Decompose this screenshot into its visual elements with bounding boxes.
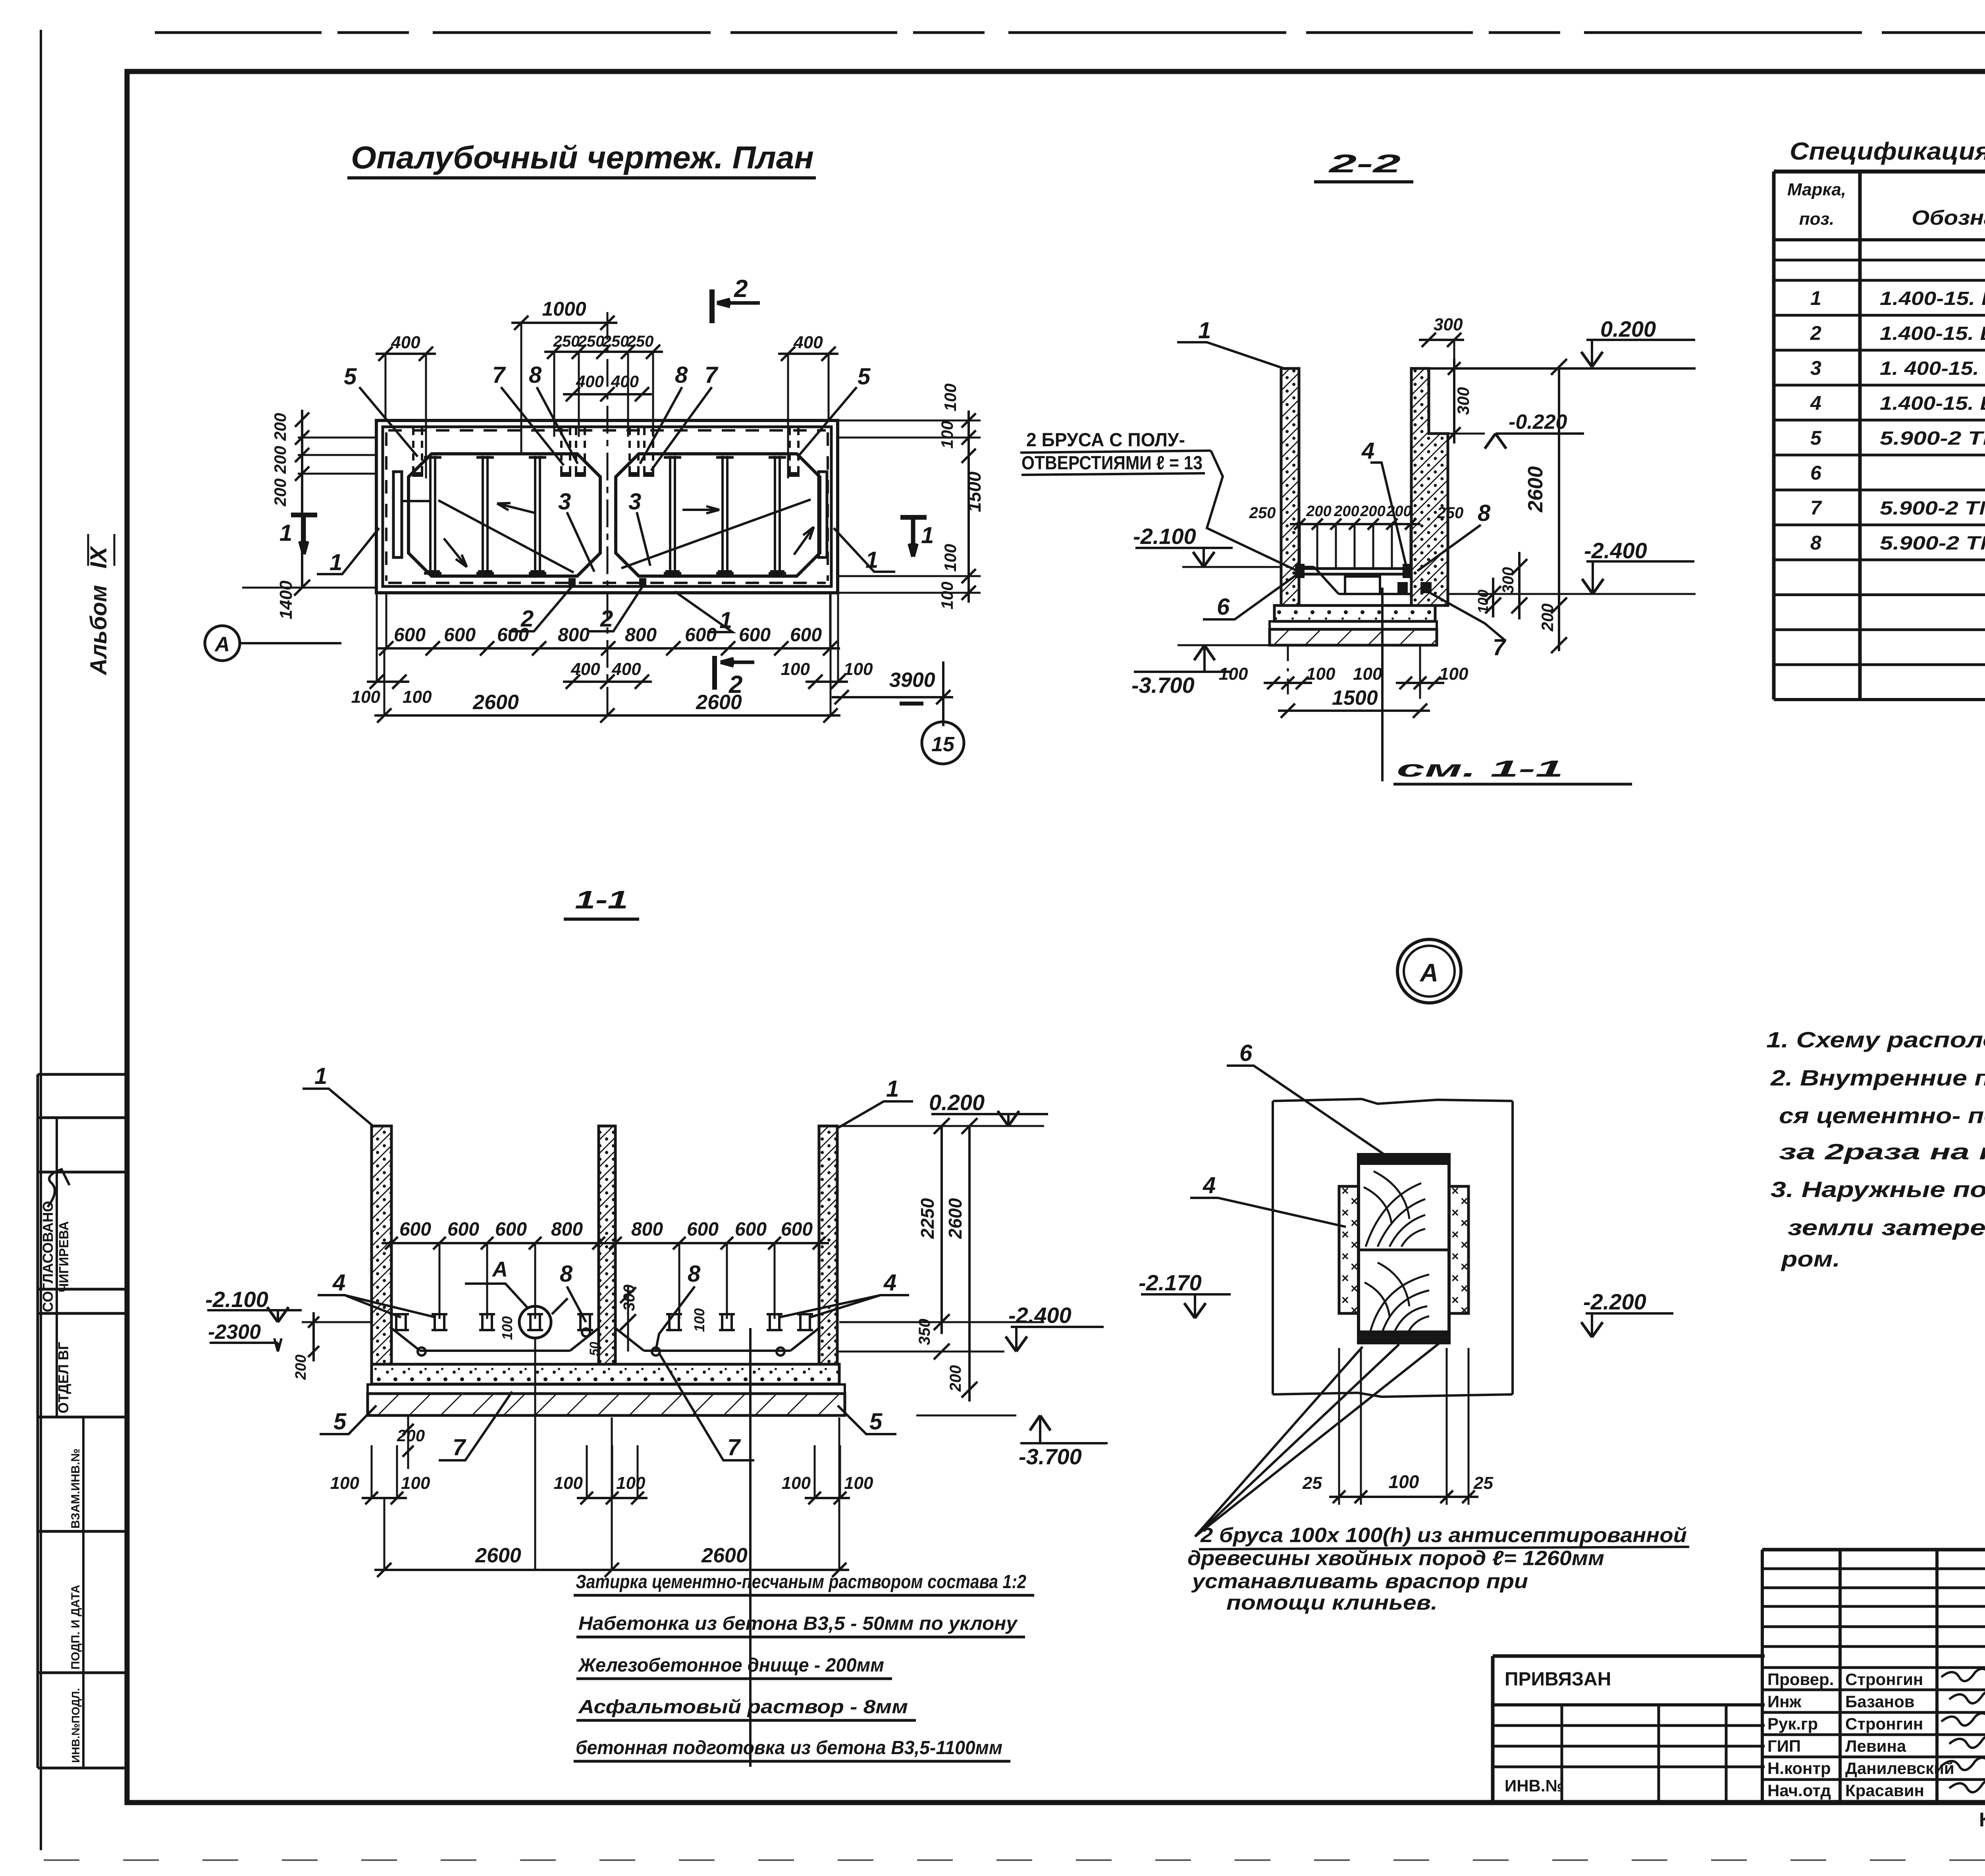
svg-text:2600: 2600 [696,691,742,714]
svg-text:×: × [1461,1281,1468,1296]
svg-text:8: 8 [1478,500,1491,526]
svg-text:7: 7 [705,362,719,388]
svg-text:5: 5 [1810,427,1822,449]
svg-text:100: 100 [351,687,381,707]
svg-text:Красавин: Красавин [1845,1781,1924,1800]
svg-text:200: 200 [1334,503,1359,520]
svg-text:2600: 2600 [472,691,519,714]
svg-text:350: 350 [916,1319,933,1345]
svg-text:ОТВЕРСТИЯМИ ℓ = 13: ОТВЕРСТИЯМИ ℓ = 13 [1021,453,1203,474]
svg-text:ПРИВЯЗАН: ПРИВЯЗАН [1505,1669,1611,1690]
svg-text:×: × [1351,1216,1358,1230]
svg-text:за 2раза на толщину 25м: за 2раза на толщину 25мм. [1779,1139,1985,1164]
svg-text:8: 8 [688,1261,701,1287]
svg-text:3: 3 [628,489,641,515]
svg-text:ром.: ром. [1781,1246,1840,1271]
svg-text:А: А [214,633,230,656]
svg-text:100: 100 [1353,664,1382,684]
svg-text:600: 600 [394,625,426,646]
svg-text:5.900-2 ТМ 89-01: 5.900-2 ТМ 89-01 [1880,533,1985,554]
svg-text:×: × [1351,1238,1358,1252]
svg-text:×: × [1451,1293,1459,1307]
svg-text:200: 200 [1538,603,1557,632]
svg-text:2 БРУСА С ПОЛУ-: 2 БРУСА С ПОЛУ- [1026,430,1185,451]
svg-text:см. 1-1: см. 1-1 [1397,756,1563,782]
svg-text:6: 6 [1217,594,1230,620]
svg-text:Набетонка из бетона В3,5 - 5: Набетонка из бетона В3,5 - 50мм по уклон… [578,1613,1018,1634]
svg-text:×: × [1351,1259,1358,1274]
svg-text:ся цементно- песчаным рас: ся цементно- песчаным раствором состава … [1779,1103,1985,1128]
svg-text:2600: 2600 [945,1198,966,1239]
svg-text:100: 100 [941,544,960,572]
svg-text:1: 1 [921,523,934,548]
svg-text:×: × [1341,1205,1349,1220]
svg-text:8: 8 [529,362,542,388]
svg-text:5: 5 [344,364,357,389]
svg-text:25: 25 [1473,1473,1493,1493]
svg-text:600: 600 [781,1219,813,1240]
svg-text:×: × [1461,1216,1468,1230]
svg-text:2. Внутренние поверхности: 2. Внутренние поверхности стен торкретир… [1770,1065,1985,1090]
svg-text:200: 200 [397,1426,425,1445]
svg-text:ИНВ.№: ИНВ.№ [1505,1776,1564,1795]
svg-text:1000: 1000 [542,298,586,320]
svg-text:IX: IX [86,546,112,569]
svg-text:Нач.отд: Нач.отд [1767,1781,1831,1800]
svg-text:×: × [1451,1227,1459,1242]
svg-text:Альбом: Альбом [86,585,112,676]
svg-text:100: 100 [330,1473,360,1493]
svg-text:3900: 3900 [889,669,935,692]
svg-text:800: 800 [631,1219,663,1240]
svg-text:5.900-2 ТМ91-02: 5.900-2 ТМ91-02 [1880,428,1985,449]
svg-text:5: 5 [333,1409,347,1434]
svg-text:×: × [1461,1303,1468,1317]
svg-text:-2.170: -2.170 [1139,1270,1202,1295]
svg-text:600: 600 [735,1219,767,1240]
svg-text:×: × [1351,1194,1358,1208]
svg-text:×: × [1351,1281,1358,1296]
svg-text:200: 200 [293,1355,309,1380]
svg-text:100: 100 [1475,590,1491,613]
svg-text:600: 600 [399,1219,431,1240]
svg-text:ЧИГИРЕВА: ЧИГИРЕВА [56,1221,71,1292]
svg-text:300: 300 [1434,315,1463,334]
svg-text:100: 100 [499,1316,515,1340]
svg-text:ВЗАМ.ИНВ.№: ВЗАМ.ИНВ.№ [69,1448,82,1529]
svg-text:×: × [1341,1227,1349,1242]
svg-text:А: А [1419,958,1438,987]
svg-text:8: 8 [675,362,688,388]
svg-text:3. Наружные поверхности сте: 3. Наружные поверхности стен выше отметк… [1771,1177,1985,1202]
svg-text:1. Схему расположения баков: 1. Схему расположения баков см. лист КЖ-… [1766,1027,1985,1052]
svg-text:4: 4 [1361,438,1374,464]
svg-text:Обозначение: Обозначение [1912,206,1985,229]
svg-text:Базанов: Базанов [1845,1692,1915,1711]
svg-text:100: 100 [403,687,432,707]
svg-text:200: 200 [271,446,289,474]
svg-text:200: 200 [271,478,289,507]
svg-text:800: 800 [625,625,657,646]
svg-text:Левина: Левина [1845,1737,1906,1755]
svg-text:600: 600 [495,1219,527,1240]
svg-text:земли затереть цементно-: земли затереть цементно- песчаным раство… [1788,1215,1985,1240]
svg-text:3: 3 [558,489,571,515]
svg-text:7: 7 [492,362,506,388]
svg-text:400: 400 [793,333,823,352]
svg-text:1. 400-15. В1. 130-02: 1. 400-15. В1. 130-02 [1880,358,1985,379]
svg-text:×: × [1351,1303,1358,1317]
svg-text:7: 7 [727,1434,741,1460]
svg-text:Н.контр: Н.контр [1767,1759,1831,1778]
svg-text:СОГЛАСОВАНО: СОГЛАСОВАНО [40,1201,56,1312]
svg-text:100: 100 [554,1473,583,1493]
svg-text:100: 100 [938,421,956,449]
svg-text:×: × [1451,1205,1459,1220]
svg-text:100: 100 [938,582,956,609]
svg-text:Затирка цементно-песчаным раст: Затирка цементно-песчаным раствором сост… [576,1571,1026,1593]
svg-text:Стронгин: Стронгин [1845,1670,1923,1689]
svg-text:400: 400 [391,333,420,352]
svg-text:устанавливать враспор при: устанавливать враспор при [1191,1570,1528,1593]
svg-text:поз.: поз. [1799,209,1834,229]
svg-text:200: 200 [1386,503,1411,520]
svg-text:4: 4 [1810,392,1821,414]
svg-text:100: 100 [401,1473,430,1493]
svg-text:Стронгин: Стронгин [1845,1714,1923,1733]
svg-text:ГИП: ГИП [1767,1737,1801,1755]
svg-text:ИНВ.№ПОДЛ.: ИНВ.№ПОДЛ. [69,1688,82,1763]
svg-text:6: 6 [1239,1040,1253,1066]
svg-text:2: 2 [734,275,748,303]
svg-text:×: × [1341,1271,1349,1285]
svg-text:-3.700: -3.700 [1019,1444,1082,1469]
svg-text:ПОДП. И ДАТА: ПОДП. И ДАТА [69,1585,82,1670]
svg-text:250: 250 [1249,504,1276,522]
svg-text:1: 1 [1198,318,1211,343]
svg-text:100: 100 [1219,664,1248,684]
svg-text:1-1: 1-1 [575,885,628,914]
svg-text:1400: 1400 [276,580,296,619]
svg-text:4: 4 [883,1270,896,1296]
svg-text:0.200: 0.200 [929,1090,985,1115]
svg-text:600: 600 [444,625,476,646]
svg-text:400: 400 [570,659,600,679]
svg-text:600: 600 [739,625,771,646]
svg-text:200: 200 [1306,503,1331,520]
svg-text:-2.400: -2.400 [1584,538,1647,563]
svg-text:1: 1 [886,1076,899,1102]
svg-text:-2.100: -2.100 [1133,524,1196,549]
svg-text:1.400-15. В1. 120-14: 1.400-15. В1. 120-14 [1880,323,1985,344]
svg-text:200: 200 [271,413,289,441]
svg-text:Асфальтовый раствор - 8мм: Асфальтовый раствор - 8мм [578,1697,908,1718]
svg-text:5.900-2 ТМ 91: 5.900-2 ТМ 91 [1880,498,1985,519]
svg-text:1500: 1500 [1332,686,1378,710]
svg-text:4: 4 [332,1270,345,1296]
svg-text:800: 800 [551,1219,583,1240]
svg-text:Копировал:: Копировал: [1979,1809,1985,1831]
svg-text:1.400-15. В1. 620: 1.400-15. В1. 620 [1880,288,1985,309]
svg-text:Данилевский: Данилевский [1845,1759,1954,1778]
svg-text:8: 8 [560,1261,573,1287]
svg-text:100: 100 [616,1473,646,1493]
svg-text:2: 2 [1810,322,1821,344]
svg-text:100: 100 [781,659,810,679]
svg-text:×: × [1461,1259,1468,1274]
svg-text:1: 1 [279,520,292,546]
svg-text:1: 1 [1810,287,1821,309]
svg-text:2600: 2600 [1524,466,1547,513]
svg-text:-3.700: -3.700 [1131,673,1195,698]
svg-text:-2.100: -2.100 [205,1287,268,1312]
svg-text:×: × [1461,1194,1468,1208]
svg-text:А: А [491,1257,508,1281]
svg-text:4: 4 [1203,1172,1216,1198]
svg-text:600: 600 [687,1219,719,1240]
svg-text:×: × [1451,1249,1459,1263]
svg-text:древесины хвойных пород ℓ=: древесины хвойных пород ℓ= 1260мм [1187,1547,1604,1570]
svg-text:250: 250 [1437,504,1464,522]
svg-text:2-2: 2-2 [1328,149,1401,178]
svg-text:5: 5 [858,364,871,389]
svg-text:2250: 2250 [917,1198,938,1239]
svg-text:1500: 1500 [964,471,985,512]
svg-text:300: 300 [1499,567,1517,594]
svg-text:×: × [1451,1271,1459,1285]
svg-text:1: 1 [314,1063,327,1089]
svg-text:800: 800 [558,625,590,646]
svg-text:8: 8 [1810,532,1821,554]
svg-text:×: × [1451,1184,1459,1198]
svg-text:ОТДЕЛ ВГ: ОТДЕЛ ВГ [55,1342,71,1413]
svg-text:100: 100 [782,1473,811,1493]
svg-text:50: 50 [587,1342,601,1356]
svg-text:300: 300 [1454,387,1472,415]
svg-text:200: 200 [1360,503,1385,520]
svg-text:×: × [1341,1184,1349,1198]
svg-text:-2.200: -2.200 [1583,1289,1646,1314]
svg-text:0.200: 0.200 [1600,316,1656,341]
svg-text:7: 7 [453,1434,466,1460]
svg-text:×: × [1461,1238,1468,1252]
svg-text:Опалубочный чертеж. План: Опалубочный чертеж. План [351,140,814,175]
svg-text:Марка,: Марка, [1787,180,1846,199]
svg-text:×: × [1341,1293,1349,1307]
svg-text:1.400-15. В1. 120-41: 1.400-15. В1. 120-41 [1880,393,1985,414]
svg-text:Инж: Инж [1767,1692,1802,1711]
svg-text:100: 100 [1389,1471,1419,1492]
svg-text:-2300: -2300 [208,1321,261,1344]
svg-text:3: 3 [1810,357,1821,379]
svg-text:400: 400 [611,659,641,679]
svg-text:100: 100 [1439,664,1469,684]
svg-text:2 бруса 100х 100(h) из антисе: 2 бруса 100х 100(h) из антисептированной [1200,1524,1687,1547]
svg-text:7: 7 [1493,634,1507,660]
svg-text:бетонная подготовка из бетона: бетонная подготовка из бетона В3,5-1100м… [576,1737,1002,1758]
svg-text:5: 5 [869,1409,883,1434]
svg-text:100: 100 [844,1473,873,1493]
svg-text:100: 100 [844,659,873,679]
svg-text:7: 7 [1810,497,1822,519]
svg-text:6: 6 [1810,462,1822,484]
svg-text:Рук.гр: Рук.гр [1767,1714,1818,1733]
svg-text:помощи клиньев.: помощи клиньев. [1226,1591,1438,1614]
svg-text:-2.400: -2.400 [1008,1303,1072,1328]
svg-text:Железобетонное днище - 200мм: Железобетонное днище - 200мм [577,1655,884,1676]
svg-text:600: 600 [447,1219,479,1240]
svg-text:600: 600 [790,625,822,646]
svg-text:2600: 2600 [475,1544,521,1567]
svg-text:100: 100 [1306,664,1336,684]
svg-text:600: 600 [497,625,529,646]
svg-text:×: × [1341,1249,1349,1263]
svg-text:1: 1 [330,549,342,575]
svg-text:600: 600 [685,625,717,646]
svg-text:Провер.: Провер. [1767,1670,1834,1689]
svg-text:100: 100 [941,384,960,411]
svg-text:25: 25 [1302,1473,1322,1493]
svg-text:15: 15 [931,733,955,756]
svg-text:200: 200 [947,1365,964,1392]
svg-text:2600: 2600 [701,1544,748,1567]
svg-text:100: 100 [691,1308,707,1332]
svg-text:Спецификация: Спецификация [1790,138,1985,165]
